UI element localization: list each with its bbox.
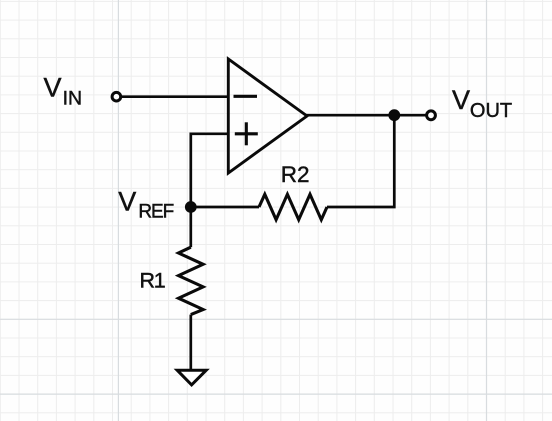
major grid line horizontal A: [0, 318, 552, 320]
major grid line vertical B: [486, 0, 488, 421]
resistor R1: [179, 247, 204, 314]
ground: [177, 370, 206, 385]
major grid line horizontal B: [0, 393, 552, 395]
junction node at output: [388, 109, 400, 121]
op-amp U1: [228, 59, 307, 173]
svg-text:IN: IN: [63, 88, 83, 110]
wire: Vref node up and right to op-amp non-inverting input: [191, 134, 229, 207]
svg-text:V: V: [44, 73, 62, 103]
terminal Vout (open circle): [427, 111, 436, 120]
svg-text:V: V: [118, 186, 136, 216]
major grid line vertical A: [117, 0, 119, 421]
wire: R2 left end to Vref node: [191, 206, 259, 209]
wire: op-amp output to Vout terminal: [307, 114, 426, 117]
wire: R1 bottom to ground: [189, 315, 192, 370]
svg-text:REF: REF: [138, 201, 173, 222]
junction node Vref: [185, 201, 197, 213]
svg-text:OUT: OUT: [470, 100, 512, 122]
wire: Vin terminal to op-amp inverting input: [122, 95, 229, 98]
svg-text:R1: R1: [140, 269, 165, 293]
svg-text:R2: R2: [281, 162, 310, 187]
resistor R2: [259, 194, 327, 219]
wire: Vref node down to R1: [189, 207, 192, 247]
svg-text:V: V: [452, 85, 470, 115]
terminal Vin (open circle): [112, 92, 121, 101]
wire: output junction down to feedback row: [327, 115, 394, 207]
